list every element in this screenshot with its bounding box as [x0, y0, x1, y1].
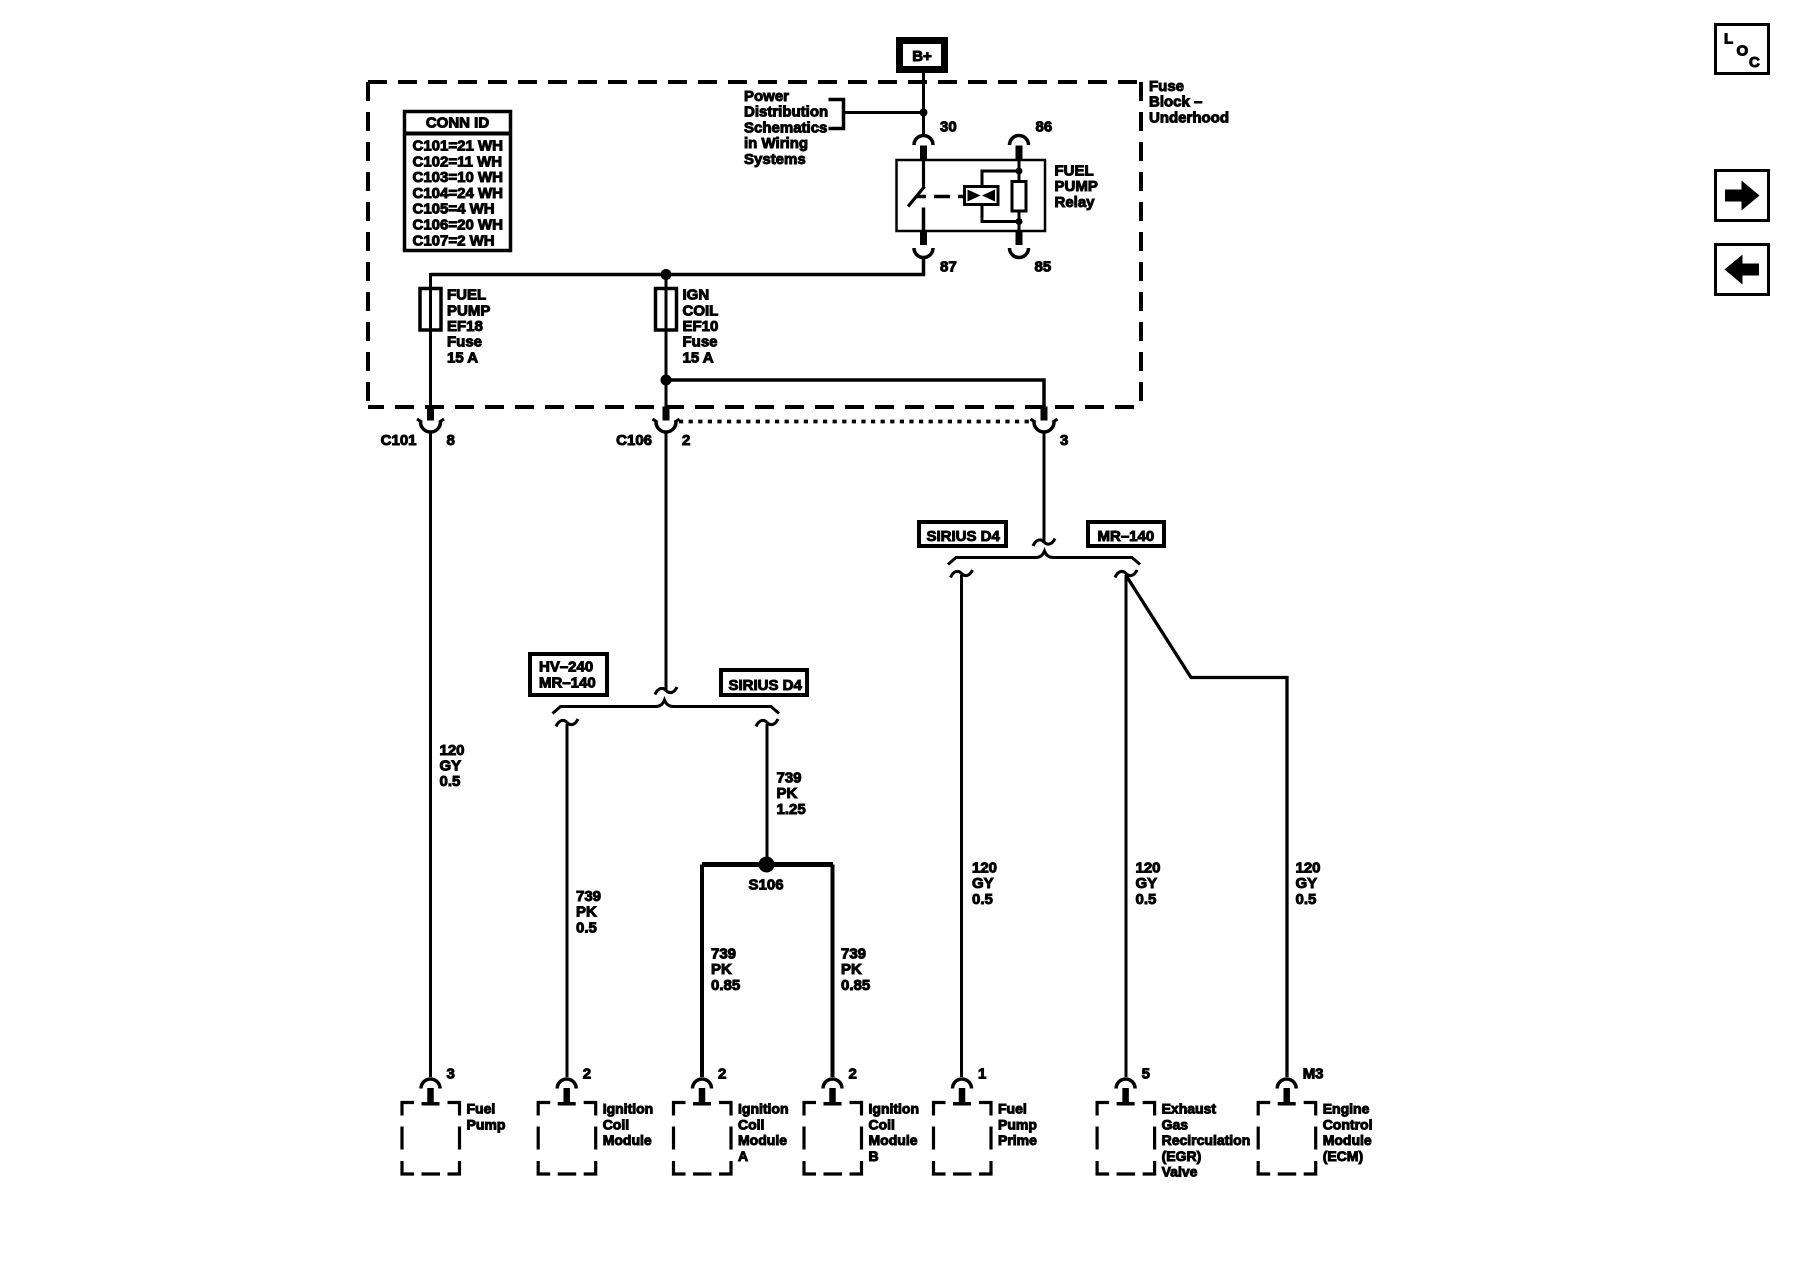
label: Exhaust Gas Recirculation (EGR) Valve [1162, 1101, 1251, 1180]
wire: feed drop to ign coil fuse [665, 275, 668, 408]
wire 120 GY to fuel pump [429, 431, 432, 1078]
relay switch fixed contact (pin 30) [922, 160, 925, 187]
svg-text:IGN: IGN [683, 287, 710, 304]
relay pin 87 connector terminal [914, 231, 933, 258]
svg-text:(ECM): (ECM) [1323, 1148, 1363, 1164]
component connector: Ignition Coil Module [538, 1066, 596, 1175]
svg-text:C105=4 WH: C105=4 WH [413, 201, 495, 218]
wire label 120 GY 0.5 (EGR) [1136, 859, 1161, 907]
note bracket [829, 100, 844, 129]
svg-text:Ignition: Ignition [738, 1101, 789, 1117]
svg-text:Coil: Coil [869, 1116, 895, 1132]
branch hook SIRIUS D4 side [756, 719, 778, 727]
wire 120 GY 0.5 to fuel pump prime [960, 575, 963, 1077]
component connector: EGR Valve [1097, 1066, 1155, 1175]
svg-text:(EGR): (EGR) [1162, 1148, 1202, 1164]
svg-text:86: 86 [1036, 119, 1053, 136]
note: Power Distribution Schematics in Wiring Systems [744, 88, 828, 168]
svg-text:S106: S106 [749, 877, 784, 894]
component connector: Ignition Coil Module B [804, 1066, 862, 1175]
wire 739 PK 1.25 to splice S106 [766, 724, 769, 865]
harness label box HV-240 MR-140 [530, 654, 607, 695]
svg-text:Fuel: Fuel [467, 1101, 496, 1117]
svg-text:8: 8 [447, 432, 455, 449]
svg-text:FUEL: FUEL [1055, 163, 1094, 180]
harness label box MR-140 [1088, 522, 1164, 546]
svg-text:PK: PK [777, 785, 798, 802]
label: Ignition Coil Module B [869, 1101, 920, 1164]
svg-text:HV–240: HV–240 [539, 659, 593, 676]
svg-text:B+: B+ [912, 48, 932, 65]
svg-text:120: 120 [972, 859, 997, 876]
splice S106 bus bar [702, 862, 833, 867]
wire 120 GY 0.5 to ECM (diagonal) [1127, 577, 1287, 1077]
wire: armature branch bottom [982, 205, 1016, 222]
fuse block boundary top (dashed) [368, 80, 1141, 84]
svg-text:C103=10 WH: C103=10 WH [413, 169, 503, 186]
junction node at B+ feed [920, 109, 928, 117]
component connector: Fuel Pump Prime [934, 1066, 992, 1175]
relay switch movable blade [908, 187, 925, 207]
label: Ignition Coil Module [603, 1101, 654, 1149]
svg-text:739: 739 [841, 946, 866, 963]
svg-text:87: 87 [940, 259, 957, 276]
svg-text:Prime: Prime [998, 1132, 1037, 1148]
wire label 739 PK 0.85 (B) [841, 946, 870, 994]
connector C106 terminal 3 [1031, 407, 1058, 433]
component connector: Fuel Pump [402, 1066, 460, 1175]
svg-text:15 A: 15 A [447, 349, 478, 366]
svg-text:1.25: 1.25 [777, 801, 806, 818]
wire 120 GY 0.5 to EGR valve [1125, 575, 1128, 1077]
fuse EF18 FUEL PUMP 15A [420, 289, 441, 331]
svg-text:15 A: 15 A [683, 349, 714, 366]
svg-text:120: 120 [440, 742, 465, 759]
label: Fuel Pump [467, 1101, 506, 1133]
wire: feed drop to fuel pump fuse [429, 273, 432, 407]
svg-text:3: 3 [1060, 432, 1068, 449]
wire 739 PK 0.5 to ignition coil module [566, 724, 569, 1077]
svg-text:Ignition: Ignition [869, 1101, 920, 1117]
svg-text:C107=2 WH: C107=2 WH [413, 232, 495, 249]
LOC reference box [1716, 25, 1769, 74]
fuse EF10 IGN COIL 15A [656, 289, 677, 331]
svg-text:120: 120 [1296, 859, 1321, 876]
wire end hook [1033, 539, 1055, 547]
label: Fuse Block - Underhood [1149, 78, 1229, 126]
svg-text:GY: GY [440, 758, 462, 775]
svg-text:0.5: 0.5 [576, 919, 597, 936]
svg-text:0.5: 0.5 [1136, 891, 1157, 908]
svg-text:EF18: EF18 [447, 318, 483, 335]
label: Engine Control Module (ECM) [1323, 1101, 1373, 1164]
actuator dashed link [917, 195, 963, 199]
harness split brace (middle) [553, 700, 780, 714]
svg-text:Fuse: Fuse [683, 334, 718, 351]
svg-text:Coil: Coil [603, 1116, 629, 1132]
branch hook MR-140 [1115, 570, 1137, 578]
svg-text:1: 1 [978, 1066, 986, 1083]
junction node coil top [1016, 168, 1023, 175]
svg-text:0.5: 0.5 [1296, 891, 1317, 908]
svg-text:0.85: 0.85 [711, 977, 740, 994]
svg-text:Module: Module [738, 1132, 787, 1148]
svg-text:GY: GY [1296, 875, 1318, 892]
nav arrow left button [1716, 245, 1769, 295]
svg-text:5: 5 [1142, 1066, 1150, 1083]
wire: pin 87 to fuse feed bus [431, 257, 924, 275]
svg-text:Fuse: Fuse [447, 334, 482, 351]
svg-text:Control: Control [1323, 1116, 1373, 1132]
branch hook SIRIUS D4 [951, 570, 973, 578]
svg-text:3: 3 [447, 1066, 455, 1083]
fuse block boundary left (dashed) [366, 82, 370, 407]
wire label 120 GY 0.5 (prime) [972, 859, 997, 907]
svg-text:M3: M3 [1303, 1066, 1324, 1083]
svg-text:Schematics: Schematics [744, 119, 827, 136]
wire: armature branch top [982, 171, 1016, 187]
harness label box SIRIUS D4 (right) [919, 522, 1006, 546]
svg-text:Pump: Pump [467, 1116, 506, 1132]
relay pin 85 connector terminal [1010, 231, 1029, 258]
fuse block boundary right (dashed) [1139, 82, 1143, 407]
svg-text:Module: Module [869, 1132, 918, 1148]
svg-text:PUMP: PUMP [1055, 178, 1098, 195]
svg-text:GY: GY [972, 875, 994, 892]
svg-text:Distribution: Distribution [744, 104, 828, 121]
svg-text:Engine: Engine [1323, 1101, 1370, 1117]
wire label 120 GY 0.5 (ECM) [1296, 859, 1321, 907]
wire label 739 PK 0.5 [576, 888, 601, 936]
svg-text:Fuel: Fuel [998, 1101, 1027, 1117]
wire label 739 PK 1.25 [777, 770, 806, 818]
junction node below ign coil fuse [661, 375, 672, 386]
svg-text:COIL: COIL [683, 302, 719, 319]
wire 739 PK from C106-2 [665, 431, 668, 691]
svg-text:0.5: 0.5 [440, 773, 461, 790]
svg-text:Pump: Pump [998, 1116, 1037, 1132]
svg-text:PK: PK [841, 961, 862, 978]
wire end hook [655, 687, 677, 695]
svg-text:Power: Power [744, 88, 789, 105]
fuel pump relay box [897, 160, 1046, 231]
svg-text:FUEL: FUEL [447, 287, 486, 304]
svg-text:739: 739 [777, 770, 802, 787]
svg-text:EF10: EF10 [683, 318, 719, 335]
label: FUEL PUMP EF18 Fuse 15 A [447, 287, 490, 367]
svg-text:Module: Module [603, 1132, 652, 1148]
svg-text:Underhood: Underhood [1149, 109, 1229, 126]
svg-text:MR–140: MR–140 [539, 675, 596, 692]
svg-text:0.85: 0.85 [841, 977, 870, 994]
connector C106 terminal 2 [653, 407, 680, 433]
label: FUEL PUMP Relay [1055, 163, 1098, 211]
svg-text:2: 2 [583, 1066, 591, 1083]
svg-text:739: 739 [711, 946, 736, 963]
svg-text:C101=21 WH: C101=21 WH [413, 138, 503, 155]
svg-text:C101: C101 [381, 432, 417, 449]
svg-text:2: 2 [682, 432, 690, 449]
wire: pin 86 to coil [1018, 161, 1021, 182]
branch hook HV-240 side [556, 719, 578, 727]
harness label box SIRIUS D4 (middle) [721, 670, 807, 695]
svg-text:C106=20 WH: C106=20 WH [413, 217, 503, 234]
relay pin 86 connector terminal [1010, 136, 1029, 161]
svg-text:MR–140: MR–140 [1098, 528, 1155, 545]
connector C106 in-line boundary (dotted) [679, 420, 1032, 424]
relay switch lower contact (pin 87) [922, 208, 926, 232]
component connector: Engine Control Module [1258, 1066, 1323, 1175]
relay coil element [1012, 182, 1026, 212]
svg-text:A: A [738, 1148, 748, 1164]
junction node coil bottom [1016, 218, 1023, 225]
svg-text:2: 2 [718, 1066, 726, 1083]
label: Fuel Pump Prime [998, 1101, 1037, 1149]
svg-text:CONN ID: CONN ID [426, 115, 490, 132]
svg-text:Exhaust: Exhaust [1162, 1101, 1217, 1117]
wire label 120 GY 0.5 [440, 742, 465, 790]
svg-text:C104=24 WH: C104=24 WH [413, 185, 503, 202]
wire: B+ down to relay pin 30 [922, 71, 925, 136]
svg-text:C106: C106 [616, 432, 652, 449]
splice S106 node [759, 857, 775, 873]
wire 739 PK 0.85 to coil module A [700, 865, 704, 1078]
svg-text:2: 2 [849, 1066, 857, 1083]
svg-text:B: B [869, 1148, 879, 1164]
svg-text:in Wiring: in Wiring [744, 135, 808, 152]
svg-text:Fuse: Fuse [1149, 78, 1184, 95]
wire label 739 PK 0.85 (A) [711, 946, 740, 994]
svg-text:30: 30 [940, 119, 957, 136]
wire: note bracket to B+ feed [844, 111, 922, 114]
nav arrow right button [1716, 171, 1769, 221]
svg-text:PUMP: PUMP [447, 302, 490, 319]
svg-text:739: 739 [576, 888, 601, 905]
relay armature box with cross [965, 187, 999, 205]
junction node at ign coil fuse tap [661, 269, 672, 280]
label: IGN COIL EF10 Fuse 15 A [683, 287, 719, 367]
svg-text:GY: GY [1136, 875, 1158, 892]
B+ battery positive terminal [900, 41, 945, 70]
wire from C106-3 down [1043, 431, 1046, 543]
svg-text:Relay: Relay [1055, 194, 1096, 211]
label: Ignition Coil Module A [738, 1101, 789, 1164]
relay pin 30 connector terminal [914, 136, 933, 161]
svg-text:85: 85 [1035, 259, 1052, 276]
CONN ID connector table [403, 112, 512, 251]
svg-text:120: 120 [1136, 859, 1161, 876]
svg-text:C102=11 WH: C102=11 WH [413, 153, 503, 170]
svg-text:Systems: Systems [744, 151, 806, 168]
fuse block boundary bottom (dashed) [368, 405, 1141, 409]
wire: ign coil fuse output bus [666, 380, 1044, 407]
svg-text:0.5: 0.5 [972, 891, 993, 908]
svg-text:Coil: Coil [738, 1116, 764, 1132]
svg-text:SIRIUS D4: SIRIUS D4 [729, 677, 803, 694]
svg-text:L: L [1724, 31, 1733, 48]
svg-text:Valve: Valve [1162, 1164, 1198, 1180]
svg-text:SIRIUS D4: SIRIUS D4 [927, 528, 1001, 545]
svg-text:Module: Module [1323, 1132, 1372, 1148]
svg-text:Block –: Block – [1149, 94, 1202, 111]
svg-text:O: O [1737, 43, 1749, 60]
svg-text:Ignition: Ignition [603, 1101, 654, 1117]
svg-text:Recirculation: Recirculation [1162, 1132, 1251, 1148]
component connector: Ignition Coil Module A [674, 1066, 732, 1175]
svg-text:PK: PK [711, 961, 732, 978]
svg-text:PK: PK [576, 904, 597, 921]
harness split brace (right) [948, 551, 1140, 565]
svg-text:C: C [1749, 54, 1760, 71]
wire: coil to pin 85 [1018, 211, 1021, 231]
wire 739 PK 0.85 to coil module B [831, 865, 835, 1078]
svg-text:Gas: Gas [1162, 1116, 1189, 1132]
connector C101 terminal 8 [417, 407, 444, 433]
